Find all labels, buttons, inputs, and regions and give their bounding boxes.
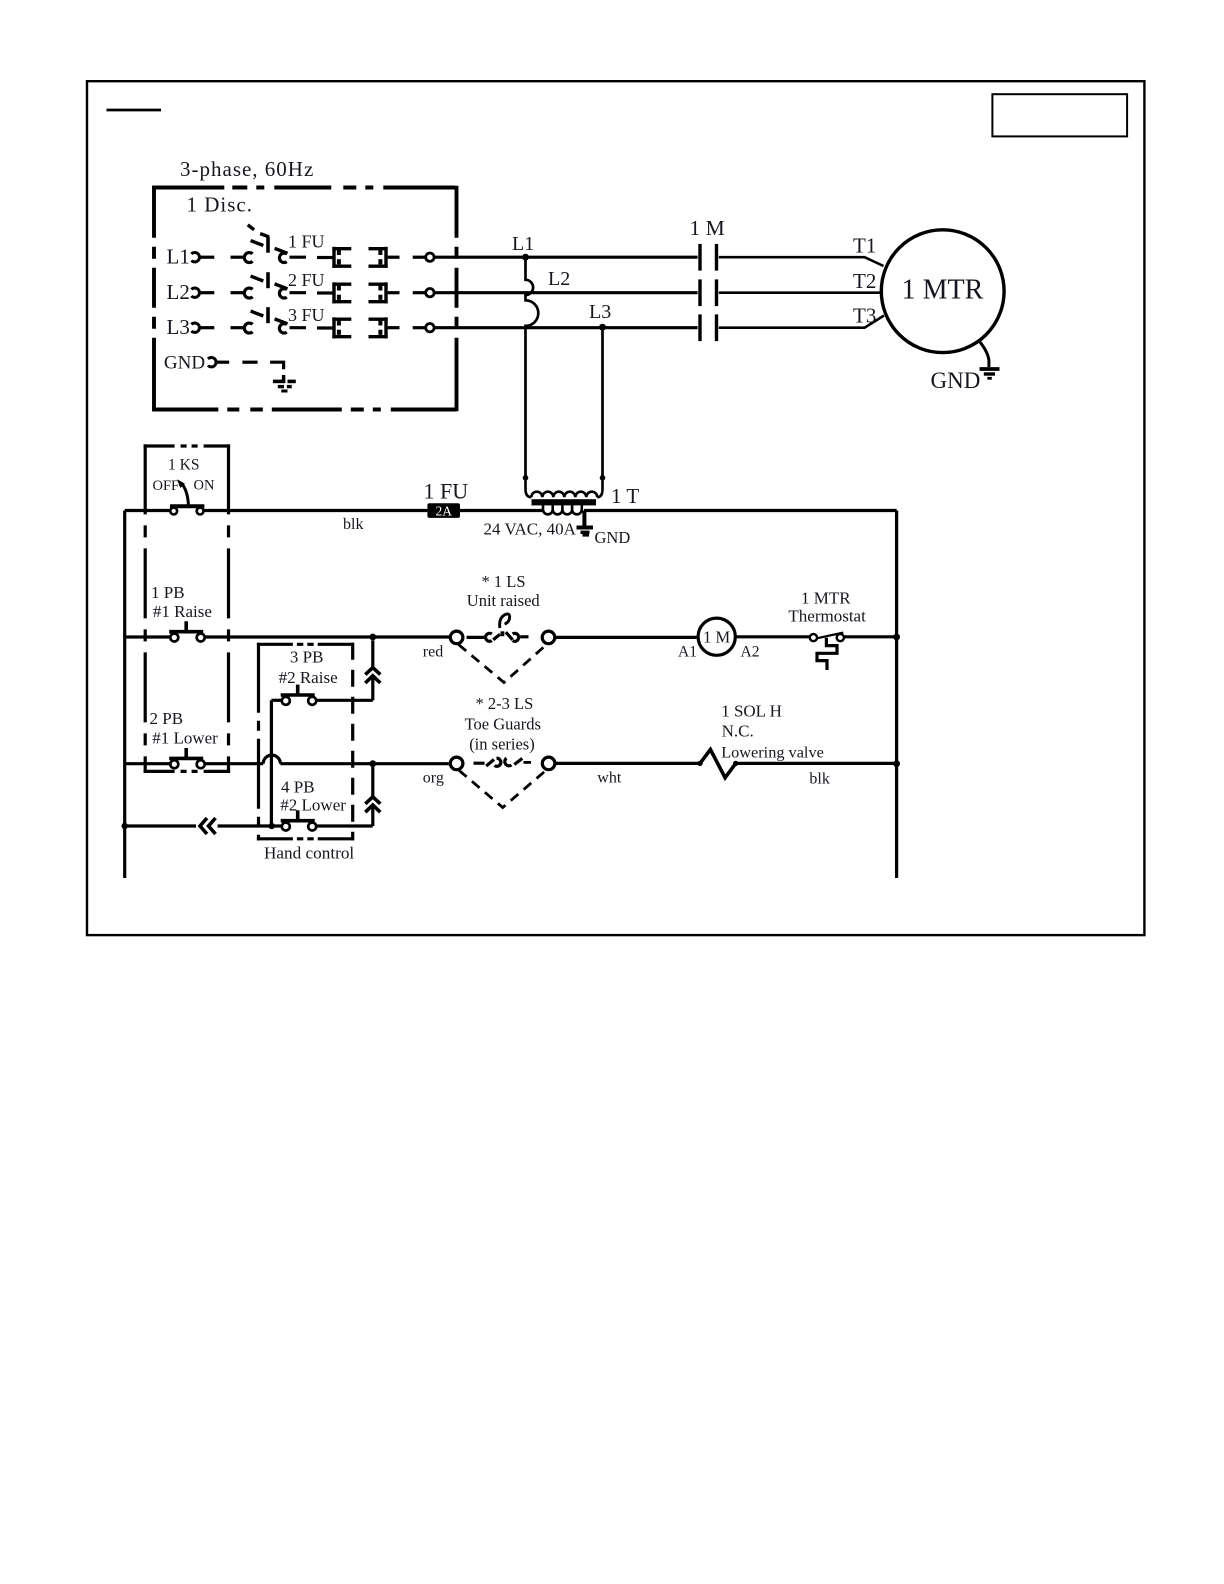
svg-text:* 2-3 LS: * 2-3 LS <box>476 694 534 713</box>
svg-text:3-phase, 60Hz: 3-phase, 60Hz <box>180 157 314 181</box>
svg-text:L3: L3 <box>167 315 190 339</box>
svg-text:1 M: 1 M <box>690 216 725 240</box>
svg-text:#1 Raise: #1 Raise <box>153 602 212 621</box>
svg-text:GND: GND <box>164 353 205 374</box>
svg-text:1 PB: 1 PB <box>151 583 185 602</box>
svg-text:A1: A1 <box>678 644 697 661</box>
svg-text:1 MTR: 1 MTR <box>801 589 851 608</box>
svg-text:OFF: OFF <box>153 478 180 494</box>
svg-text:1 FU: 1 FU <box>424 479 469 504</box>
svg-text:Unit raised: Unit raised <box>467 591 541 610</box>
svg-text:GND: GND <box>931 368 981 393</box>
svg-text:T1: T1 <box>853 234 876 258</box>
svg-text:#1 Lower: #1 Lower <box>152 729 218 748</box>
svg-text:ON: ON <box>194 478 215 494</box>
svg-text:1 M: 1 M <box>703 628 730 647</box>
svg-text:1 FU: 1 FU <box>288 232 325 252</box>
svg-text:Thermostat: Thermostat <box>788 607 866 626</box>
svg-text:Hand control: Hand control <box>264 844 354 863</box>
svg-text:Lowering valve: Lowering valve <box>721 743 824 762</box>
svg-text:3 FU: 3 FU <box>288 305 325 325</box>
svg-text:A2: A2 <box>741 644 760 661</box>
svg-text:(in series): (in series) <box>469 735 535 754</box>
svg-text:L1: L1 <box>167 244 190 268</box>
svg-text:1 T: 1 T <box>611 484 639 508</box>
svg-text:L1: L1 <box>512 233 534 255</box>
svg-text:1 Disc.: 1 Disc. <box>187 193 254 217</box>
svg-text:wht: wht <box>597 769 622 786</box>
svg-text:1 SOL H: 1 SOL H <box>721 702 782 721</box>
svg-text:4 PB: 4 PB <box>281 778 315 797</box>
svg-text:3 PB: 3 PB <box>290 647 324 666</box>
svg-text:24 VAC, 40A: 24 VAC, 40A <box>484 520 577 539</box>
svg-text:#2 Lower: #2 Lower <box>280 795 346 814</box>
svg-text:L2: L2 <box>167 280 190 304</box>
svg-text:L3: L3 <box>589 301 611 323</box>
svg-text:2 FU: 2 FU <box>288 270 325 290</box>
svg-text:2 PB: 2 PB <box>150 709 184 728</box>
svg-text:L2: L2 <box>548 268 570 290</box>
svg-text:2A: 2A <box>435 504 452 519</box>
svg-text:blk: blk <box>343 516 363 533</box>
svg-text:1 MTR: 1 MTR <box>902 275 984 306</box>
svg-text:#2 Raise: #2 Raise <box>279 668 338 687</box>
svg-text:Toe Guards: Toe Guards <box>465 715 541 734</box>
svg-text:T3: T3 <box>853 304 876 328</box>
svg-text:T2: T2 <box>853 269 876 293</box>
svg-text:org: org <box>423 769 444 786</box>
svg-text:1 KS: 1 KS <box>168 456 199 473</box>
svg-text:N.C.: N.C. <box>722 722 754 741</box>
svg-text:red: red <box>423 644 443 661</box>
svg-text:GND: GND <box>595 528 631 547</box>
svg-text:* 1 LS: * 1 LS <box>482 572 526 591</box>
svg-text:blk: blk <box>809 771 829 788</box>
